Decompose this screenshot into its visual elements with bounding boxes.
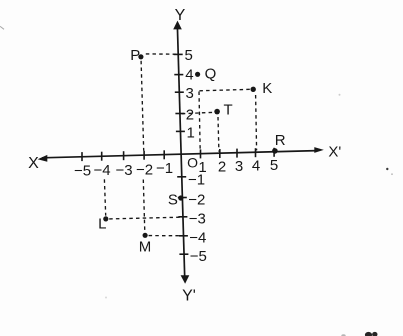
faint scan mark left edge bbox=[0, 26, 4, 29]
svg-text:−1: −1 bbox=[188, 172, 205, 189]
point M (-2,-4) bbox=[143, 233, 148, 238]
svg-text:4: 4 bbox=[185, 66, 193, 83]
svg-text:L: L bbox=[98, 215, 106, 232]
svg-text:T: T bbox=[224, 102, 233, 119]
svg-text:R: R bbox=[275, 132, 286, 149]
dashed vertical line x=1 to x-axis bbox=[199, 92, 200, 152]
y tick -5 bbox=[179, 253, 188, 255]
point T (2,2) bbox=[214, 109, 220, 115]
svg-text:−2: −2 bbox=[136, 161, 153, 178]
svg-text:3: 3 bbox=[235, 158, 243, 175]
svg-text:−4: −4 bbox=[189, 230, 206, 247]
scan ink blob bottom-right corner bbox=[341, 334, 345, 336]
y tick 4 bbox=[174, 74, 183, 76]
y tick 2 bbox=[175, 113, 184, 115]
dashed projection T to x-axis (vertical x=2) bbox=[217, 117, 220, 152]
y-axis top arrowhead bbox=[173, 21, 182, 30]
x-axis bbox=[42, 151, 317, 158]
dashed projection K to x-axis (vertical x=4) bbox=[256, 95, 257, 150]
svg-text:M: M bbox=[139, 239, 152, 256]
y tick -3 bbox=[178, 216, 187, 218]
y tick -2 bbox=[178, 197, 187, 199]
x-axis left arrowhead bbox=[38, 155, 48, 162]
svg-text:Y': Y' bbox=[182, 287, 196, 304]
x tick -5 bbox=[81, 152, 83, 161]
y tick 1 bbox=[176, 130, 185, 132]
dashed projection T to y-axis (horizontal y=2) bbox=[182, 112, 213, 113]
point R (5,0) bbox=[272, 148, 278, 154]
x tick 2 bbox=[219, 149, 221, 158]
svg-text:Q: Q bbox=[205, 66, 217, 83]
x-axis right arrowhead bbox=[314, 147, 324, 153]
point K (4,3) bbox=[251, 87, 256, 92]
x tick -2 bbox=[143, 151, 145, 160]
svg-text:4: 4 bbox=[252, 158, 260, 175]
x tick 1 bbox=[200, 149, 202, 158]
point S (0,-2) bbox=[178, 195, 183, 200]
svg-text:3: 3 bbox=[186, 85, 194, 102]
faint speck lower left bbox=[105, 297, 107, 299]
svg-text:−4: −4 bbox=[93, 162, 110, 179]
y tick -4 bbox=[179, 235, 188, 237]
x tick -4 bbox=[101, 152, 103, 161]
x tick -1 bbox=[163, 150, 165, 159]
svg-text:X': X' bbox=[328, 144, 341, 161]
svg-text:Y: Y bbox=[175, 7, 186, 24]
svg-text:O: O bbox=[187, 155, 198, 171]
y-axis bbox=[177, 27, 184, 278]
svg-text:−1: −1 bbox=[156, 160, 173, 177]
svg-text:2: 2 bbox=[186, 107, 194, 124]
svg-text:−3: −3 bbox=[115, 162, 132, 179]
svg-text:1: 1 bbox=[187, 124, 195, 141]
y tick -1 bbox=[177, 176, 186, 178]
y tick 3 bbox=[175, 91, 184, 93]
svg-text:S: S bbox=[168, 192, 178, 209]
dashed horizontal line y=3 from x=1 to K bbox=[199, 89, 251, 91]
scan speck dots right of x-axis bbox=[386, 168, 388, 170]
point P (-2,5) bbox=[138, 54, 143, 59]
svg-text:−5: −5 bbox=[190, 248, 207, 265]
faint speck upper right bbox=[339, 94, 341, 96]
svg-text:−3: −3 bbox=[189, 211, 206, 228]
x tick 3 bbox=[236, 149, 238, 158]
dashed projection P to x-axis (vertical x=-2) bbox=[141, 61, 144, 151]
svg-text:K: K bbox=[262, 80, 272, 97]
x tick 5 bbox=[273, 148, 275, 157]
svg-text:X: X bbox=[28, 155, 39, 172]
dashed projection M to x-axis (vertical x=-2) bbox=[143, 180, 145, 233]
svg-text:−5: −5 bbox=[74, 163, 91, 180]
svg-text:P: P bbox=[130, 47, 140, 64]
svg-text:5: 5 bbox=[270, 157, 278, 174]
point Q (1,4) bbox=[195, 72, 200, 77]
svg-text:−2: −2 bbox=[188, 191, 205, 208]
x tick 4 bbox=[255, 148, 257, 157]
svg-text:5: 5 bbox=[185, 47, 193, 64]
point L (-4,-3) bbox=[103, 216, 108, 221]
dashed projection L to y-axis (horizontal y=-3) bbox=[109, 217, 181, 219]
dashed projection P to y-axis (horizontal y=5) bbox=[146, 53, 177, 55]
y-axis bottom arrowhead bbox=[181, 275, 190, 284]
dashed projection M to y-axis (horizontal y=-4) bbox=[149, 235, 183, 237]
y tick 5 bbox=[174, 53, 183, 55]
svg-text:2: 2 bbox=[218, 159, 226, 176]
x tick -3 bbox=[123, 151, 125, 160]
dashed projection L to x-axis (vertical x=-4) bbox=[104, 179, 105, 215]
